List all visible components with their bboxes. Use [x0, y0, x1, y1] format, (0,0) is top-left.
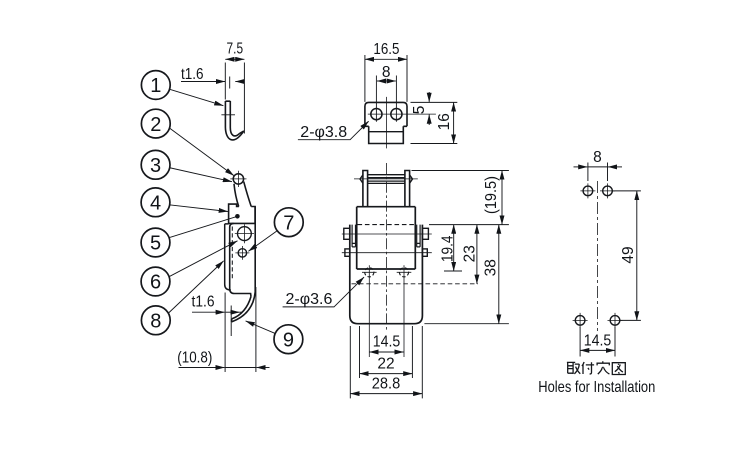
- svg-text:23: 23: [461, 245, 478, 262]
- flange hole centre line lower: [342, 252, 432, 254]
- striker plate outline (top view): [365, 102, 407, 143]
- big hole crosshair: [235, 224, 254, 243]
- pivot crosshair: [230, 171, 246, 187]
- dimension 23 line: [476, 225, 478, 284]
- big hole (side view): [238, 227, 252, 241]
- spring lower edge hidden line: [352, 283, 479, 285]
- balloon 9: [274, 325, 303, 354]
- hook bar centre line: [354, 178, 418, 180]
- hook strip (part 1) side view: [225, 101, 244, 140]
- hidden hole left (2-phi3.6): [365, 268, 374, 277]
- svg-text:19.4: 19.4: [439, 235, 456, 262]
- t1.6 bottom arrows: [192, 311, 225, 313]
- install hole bottom-right: [610, 316, 620, 326]
- hook bend tick: [221, 114, 235, 116]
- install hole top-left: [583, 186, 593, 196]
- dimension 8 extension lines: [376, 76, 396, 122]
- dimension (19.5) line: [501, 171, 503, 225]
- dimension 7.5 line: [225, 58, 244, 60]
- dimension (10.8) arrows: [179, 367, 225, 369]
- left flange inner lines: [352, 225, 355, 247]
- extension tick 19.4: [444, 270, 462, 272]
- svg-text:(19.5): (19.5): [483, 176, 500, 214]
- extension line top hole to 49: [612, 190, 641, 192]
- balloon 3: [141, 150, 170, 179]
- hook right post (front view): [405, 171, 410, 207]
- dimension 22 line: [360, 373, 413, 375]
- balloon 8: [141, 306, 170, 335]
- svg-text:5: 5: [150, 233, 161, 255]
- base plate top hidden line (dashed): [358, 224, 415, 226]
- top extension line (hook top): [412, 170, 509, 172]
- base plate (part 8) side view: [225, 224, 231, 290]
- balloon 5: [141, 228, 170, 257]
- dimension 49 line: [636, 191, 638, 321]
- svg-text:7.5: 7.5: [227, 41, 244, 58]
- leader 1: [169, 89, 223, 106]
- dimension 16 line: [453, 102, 455, 143]
- balloon 1: [141, 71, 170, 100]
- install hole top-right: [603, 186, 613, 196]
- svg-text:7: 7: [283, 212, 294, 234]
- dimension 8 arrows (pointing outward): [377, 80, 386, 82]
- install centre line: [597, 181, 599, 331]
- top edge extension line (right): [411, 101, 458, 103]
- hidden hole extension lines down: [369, 265, 404, 357]
- leader 5: [169, 216, 237, 237]
- kanji 付: [582, 362, 594, 374]
- leader 6: [169, 241, 238, 277]
- body block (front view): [357, 207, 416, 269]
- svg-text:1: 1: [150, 75, 161, 97]
- svg-text:2-φ3.6: 2-φ3.6: [286, 291, 333, 308]
- extension line bottom hole to 49: [620, 319, 641, 321]
- svg-text:14.5: 14.5: [584, 332, 612, 349]
- svg-text:9: 9: [283, 329, 294, 351]
- hook curl right end: [410, 175, 413, 183]
- hook curl bar (front view): [368, 175, 405, 184]
- upper block (cover) side view: [228, 204, 255, 223]
- svg-text:8: 8: [593, 149, 602, 166]
- balloon 4: [141, 188, 170, 217]
- dimension 16.5 extension lines: [365, 55, 407, 102]
- catch / flange outline (front view): [350, 225, 423, 324]
- hole left (top view): [371, 109, 382, 120]
- balloon 2: [141, 109, 170, 138]
- leader 2: [169, 128, 234, 176]
- top view vertical centre line: [385, 97, 387, 148]
- t1.6 top tick: [229, 77, 231, 89]
- kanji 取: [567, 362, 580, 374]
- right screw nub upper: [422, 228, 428, 239]
- dimension 38 line: [498, 225, 500, 324]
- left screw nub lower: [345, 249, 350, 256]
- label 2-phi3.8 leader: [298, 122, 368, 140]
- balloon 6: [141, 267, 170, 296]
- case (part 5/6) side view outline: [230, 207, 256, 322]
- hidden hole crosshairs: [362, 271, 411, 273]
- svg-text:8: 8: [382, 64, 391, 81]
- hook left post (front view): [363, 171, 368, 207]
- flange hole centre line upper: [342, 233, 432, 235]
- kanji title 取付穴図 (drawn strokes): [567, 361, 625, 374]
- hole right (top view): [391, 109, 402, 120]
- svg-text:2: 2: [150, 114, 161, 136]
- svg-text:5: 5: [411, 106, 428, 115]
- dimension (10.8) extension lines: [225, 287, 256, 372]
- svg-text:Holes for Installation: Holes for Installation: [538, 379, 655, 396]
- leader 5 dot: [235, 214, 240, 219]
- svg-text:38: 38: [482, 259, 499, 276]
- svg-text:16: 16: [436, 113, 453, 130]
- dimension 19.4 line: [453, 225, 455, 271]
- svg-text:2-φ3.8: 2-φ3.8: [300, 124, 347, 141]
- leader 4: [169, 205, 228, 212]
- svg-text:4: 4: [150, 193, 161, 215]
- dimension 7.5 extension lines: [225, 63, 244, 134]
- svg-text:t1.6: t1.6: [181, 66, 204, 83]
- svg-text:14.5: 14.5: [373, 334, 401, 351]
- hidden hole right (2-phi3.6): [399, 268, 408, 277]
- lever arm side view: [234, 182, 251, 207]
- leader 7: [248, 230, 277, 251]
- front view vertical centre line: [386, 163, 388, 331]
- t1.6 top arrows: [181, 81, 225, 83]
- dimension 16.5 line: [365, 58, 407, 60]
- dimension 8 arrows (install): [574, 166, 588, 168]
- svg-text:6: 6: [150, 272, 161, 294]
- install hole top-left crosshair: [580, 183, 595, 198]
- svg-text:3: 3: [150, 155, 161, 177]
- install hole bottom-left: [575, 316, 585, 326]
- dimension 28.8 extension lines: [350, 326, 422, 398]
- pivot rivet circle: [233, 174, 243, 184]
- small hole crosshair: [235, 246, 249, 260]
- tab bottom extension line (right): [411, 143, 458, 145]
- plate bend line (top view): [369, 131, 402, 133]
- hidden edge dashed (side view): [231, 227, 233, 280]
- dimension 14.5 line (install): [580, 349, 615, 351]
- label 2-phi3.6 leader: [283, 278, 364, 307]
- left screw nub upper: [344, 228, 350, 239]
- spring tip extension tick: [230, 306, 232, 337]
- svg-text:(10.8): (10.8): [177, 349, 212, 366]
- install hole top-right crosshair: [600, 183, 615, 198]
- svg-text:8: 8: [150, 311, 161, 333]
- dimension 22 extension lines: [360, 326, 413, 378]
- extension line at base top: [429, 224, 509, 226]
- kanji 図: [612, 363, 625, 375]
- holes center line horizontal: [368, 113, 436, 115]
- hook curl left end: [360, 175, 363, 183]
- small hole (side view): [238, 249, 246, 257]
- svg-text:22: 22: [377, 355, 394, 372]
- leader 8: [168, 261, 224, 314]
- leader 9: [246, 321, 276, 334]
- svg-text:28.8: 28.8: [372, 375, 401, 392]
- svg-text:16.5: 16.5: [373, 41, 399, 58]
- right flange inner lines: [417, 225, 420, 247]
- dimension 14.5 extension lines (install): [580, 327, 615, 357]
- balloon 7: [274, 208, 303, 237]
- dimension 5 arrows: [428, 92, 430, 102]
- dimension 28.8 line: [350, 393, 422, 395]
- kanji 穴: [597, 361, 609, 374]
- leader 3: [169, 168, 232, 182]
- bottom extension line (catch bottom): [424, 323, 509, 325]
- svg-text:t1.6: t1.6: [192, 293, 215, 310]
- dimension 8 extension lines (install): [588, 163, 608, 182]
- dimension 14.5 line (front view): [369, 351, 403, 353]
- install hole bottom-left crosshair: [573, 313, 588, 328]
- svg-text:49: 49: [620, 246, 637, 263]
- right screw nub lower: [422, 249, 427, 256]
- install hole bottom-right crosshair: [608, 313, 623, 328]
